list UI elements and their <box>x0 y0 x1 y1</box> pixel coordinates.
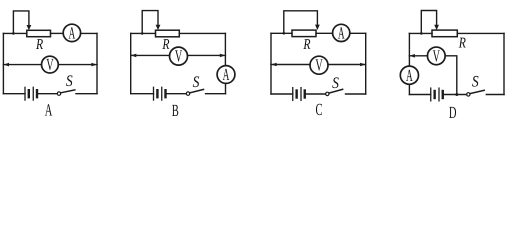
battery (circuit B) <box>154 87 166 100</box>
wire top C (resistor to ammeter) <box>316 32 333 34</box>
wire top A (left segment to resistor) <box>3 32 26 34</box>
wire top A (resistor to ammeter) <box>51 32 64 34</box>
wire right wall B (top to ammeter) <box>224 33 226 65</box>
switch S (circuit A): pivot <box>57 92 60 95</box>
switch S (circuit C): fixed contact wire <box>346 93 366 95</box>
resistor R (circuit B) <box>156 30 180 37</box>
wire left wall D (ammeter to bottom corner) <box>408 84 410 94</box>
svg-text:A: A <box>406 66 413 85</box>
svg-text:A: A <box>45 100 53 119</box>
svg-text:S: S <box>332 75 339 92</box>
svg-text:V: V <box>46 55 54 74</box>
wire top B (left segment to resistor) <box>131 32 156 34</box>
voltmeter V1 (circuit A) <box>42 56 59 73</box>
svg-text:R: R <box>35 37 43 53</box>
node arrow at wall junction D <box>410 54 415 58</box>
ammeter A1 (circuit C) <box>333 24 350 41</box>
wire middle C (voltmeter to right wall) <box>328 64 366 66</box>
rheostat slider arrowhead B <box>156 25 161 30</box>
wire voltmeter branch D (voltmeter to corner and down) <box>445 56 457 95</box>
switch S (circuit D): blade <box>470 90 484 93</box>
wire middle B (left to voltmeter) <box>131 54 170 56</box>
node arrow middle-left C <box>271 63 276 67</box>
resistor R (circuit C) <box>292 30 316 36</box>
wire top C (ammeter to right wall) <box>350 32 366 34</box>
resistor R (circuit D) <box>432 30 457 37</box>
switch S (circuit A): fixed contact wire <box>76 93 97 95</box>
svg-text:V: V <box>433 46 441 65</box>
voltmeter V1 (circuit B) <box>170 47 188 65</box>
svg-text:V: V <box>315 56 323 75</box>
rheostat slider wire A <box>13 11 29 34</box>
node arrow middle-left A <box>4 63 9 67</box>
ammeter A1 (circuit A) <box>63 24 80 41</box>
node: slider tap junction A <box>12 32 15 35</box>
wire bottom D (battery to switch) <box>444 94 467 96</box>
wire left wall D (top to V-branch junction) <box>408 33 410 66</box>
rheostat slider arrowhead D <box>434 25 439 30</box>
wire bottom B (wall to battery) <box>131 93 154 95</box>
battery (circuit C) <box>293 88 305 101</box>
switch S (circuit B): pivot <box>186 92 189 95</box>
wire top D (resistor to right wall) <box>457 32 504 34</box>
wire bottom C (battery to switch) <box>306 93 326 95</box>
wire top A (ammeter to right wall) <box>81 32 97 34</box>
svg-text:R: R <box>162 37 170 53</box>
node arrow middle-right A <box>91 63 96 67</box>
node: slider tap junction D <box>420 32 423 35</box>
wire right wall C <box>365 33 367 94</box>
wire top D (left segment to resistor) <box>409 32 432 34</box>
wire middle A (left to voltmeter) <box>3 64 41 66</box>
wire bottom A (battery to switch) <box>38 93 57 95</box>
resistor R (circuit A) <box>27 30 51 36</box>
switch S (circuit B): blade <box>190 89 204 92</box>
rheostat slider wire B <box>142 11 158 34</box>
wire middle A (voltmeter to right wall) <box>58 64 97 66</box>
node arrow middle-left B <box>131 54 136 58</box>
svg-text:S: S <box>66 73 73 90</box>
voltmeter V1 (circuit C) <box>310 56 328 74</box>
svg-text:R: R <box>303 37 311 53</box>
svg-text:D: D <box>449 103 457 122</box>
ammeter A1 (circuit D) <box>400 66 418 84</box>
svg-text:S: S <box>472 73 479 90</box>
wire left wall B <box>130 33 132 93</box>
wire top C (left segment to resistor) <box>271 32 292 34</box>
switch S (circuit A): blade <box>61 90 75 93</box>
voltmeter V1 (circuit D) <box>427 47 445 65</box>
switch S (circuit D): fixed contact wire <box>486 94 504 96</box>
svg-text:A: A <box>69 23 76 42</box>
svg-text:A: A <box>223 65 230 84</box>
svg-text:B: B <box>172 101 179 120</box>
rheostat slider arrowhead A <box>27 25 32 30</box>
battery (circuit A) <box>25 87 37 100</box>
wire right wall A <box>96 33 98 93</box>
wire middle B (voltmeter to right wall) <box>187 54 225 56</box>
rheostat slider arrowhead C <box>315 25 320 30</box>
wire bottom D (corner to battery) <box>409 94 430 96</box>
rheostat slider wire C <box>284 11 318 34</box>
svg-text:C: C <box>315 100 322 119</box>
wire top B (resistor to right wall) <box>179 32 225 34</box>
node: slider tap junction B <box>141 32 144 35</box>
switch S (circuit C): pivot <box>326 92 329 95</box>
wire middle C (left to voltmeter) <box>271 64 310 66</box>
switch S (circuit C): blade <box>329 89 343 93</box>
switch S (circuit B): fixed contact wire <box>206 93 226 95</box>
svg-text:A: A <box>338 23 345 42</box>
node: V-branch bottom junction D <box>455 93 458 96</box>
wire right wall B (ammeter to bottom) <box>225 83 227 93</box>
node: slider tap junction C <box>283 32 286 35</box>
svg-text:S: S <box>193 74 200 91</box>
wire bottom B (battery to switch) <box>167 93 187 95</box>
wire voltmeter branch D (wall to voltmeter) <box>409 55 427 57</box>
node arrow middle-right C <box>360 63 365 67</box>
wire bottom A (wall to battery) <box>3 93 25 95</box>
ammeter A1 (circuit B) <box>217 66 235 84</box>
wire left wall A <box>2 33 4 93</box>
wire left wall C <box>270 33 272 94</box>
svg-text:V: V <box>175 47 183 66</box>
node arrow middle-right B <box>220 54 225 58</box>
rheostat slider wire D <box>421 11 436 34</box>
battery (circuit D) <box>431 88 443 101</box>
wire right wall D <box>503 33 505 94</box>
switch S (circuit D): pivot <box>467 93 470 96</box>
svg-text:R: R <box>458 35 466 51</box>
wire bottom C (wall to battery) <box>271 93 293 95</box>
